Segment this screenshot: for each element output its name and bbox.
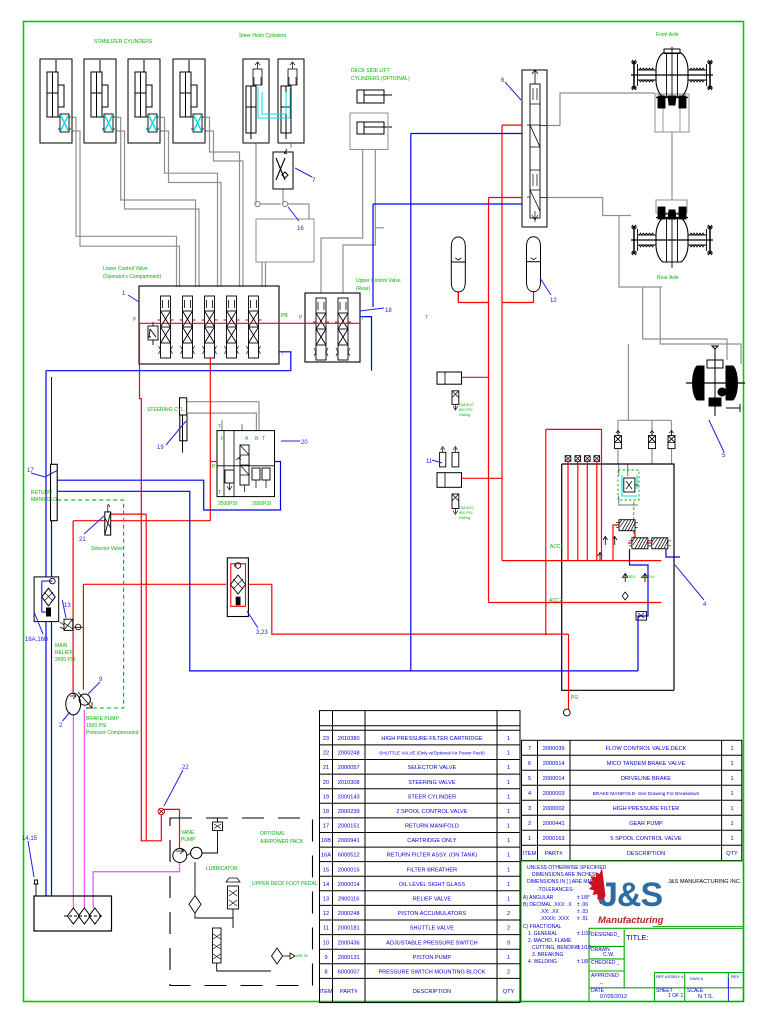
svg-text:Manufacturing: Manufacturing [598, 915, 664, 926]
svg-text:17: 17 [323, 824, 329, 830]
svg-text:6000512: 6000512 [338, 853, 360, 859]
svg-text:T: T [262, 436, 265, 442]
svg-text:2000441: 2000441 [543, 821, 565, 827]
svg-text:3. BREAKING: 3. BREAKING [532, 952, 564, 958]
svg-text:HIGH PRESSURE FILTER CARTRIDGE: HIGH PRESSURE FILTER CARTRIDGE [381, 736, 482, 742]
svg-text:ADJUSTABLE PRESSURE SWITCH: ADJUSTABLE PRESSURE SWITCH [386, 940, 478, 946]
svg-text:2000014: 2000014 [338, 882, 360, 888]
svg-text:GM ACC: GM ACC [459, 403, 474, 407]
svg-text:PART#: PART# [545, 851, 563, 857]
svg-text:PB: PB [281, 313, 288, 319]
svg-text:2: 2 [507, 911, 510, 917]
svg-text:16A: 16A [321, 853, 331, 859]
svg-text:2000163: 2000163 [543, 836, 565, 842]
svg-text:2 SPOOL CONTROL VALVE: 2 SPOOL CONTROL VALVE [396, 809, 467, 815]
svg-text:J&S: J&S [599, 876, 662, 914]
svg-text:T: T [218, 490, 221, 496]
svg-text:2000PSI: 2000PSI [252, 501, 271, 507]
svg-text:23: 23 [323, 736, 329, 742]
svg-text:B: B [255, 436, 259, 442]
svg-text:BLACK: BLACK [641, 574, 654, 579]
svg-text:22: 22 [323, 751, 329, 757]
svg-text:1: 1 [507, 794, 510, 800]
svg-text:16: 16 [297, 226, 304, 232]
svg-text:1: 1 [730, 746, 733, 752]
svg-text:2: 2 [507, 970, 510, 976]
svg-text:2000248: 2000248 [338, 911, 360, 917]
svg-text:1: 1 [730, 806, 733, 812]
svg-text:Rating: Rating [459, 413, 470, 417]
svg-text:AIR/POWER PACK: AIR/POWER PACK [260, 839, 304, 845]
svg-text:HIGH PRESSURE FILTER: HIGH PRESSURE FILTER [613, 806, 680, 812]
svg-text:5 SPOOL CONTROL VALVE: 5 SPOOL CONTROL VALVE [610, 836, 681, 842]
svg-text:1: 1 [507, 824, 510, 830]
svg-text:6000007: 6000007 [338, 970, 360, 976]
svg-text:UNLESS OTHERWISE SPECIFIED: UNLESS OTHERWISE SPECIFIED [527, 865, 607, 871]
svg-text:1 OF 1: 1 OF 1 [668, 993, 684, 999]
svg-text:1: 1 [507, 955, 510, 961]
svg-text:ITEM: ITEM [319, 989, 333, 995]
svg-text:CYLINDERS (OPTIONAL): CYLINDERS (OPTIONAL) [351, 76, 410, 82]
svg-text:UPPER DECK FOOT PEDAL: UPPER DECK FOOT PEDAL [252, 881, 318, 887]
svg-text:.XXXX: .XXX: .XXXX: .XXX [540, 916, 570, 922]
svg-text:11: 11 [323, 926, 329, 932]
svg-text:2000057: 2000057 [338, 765, 360, 771]
svg-text:8: 8 [324, 970, 327, 976]
svg-text:1: 1 [730, 821, 733, 827]
svg-text:RED: RED [627, 574, 636, 579]
svg-text:Upper Control Valve: Upper Control Valve [356, 278, 401, 284]
svg-text:Front Axle: Front Axle [656, 32, 679, 38]
svg-text:BRAKE PUMP: BRAKE PUMP [86, 716, 119, 722]
svg-text:11: 11 [426, 459, 433, 465]
svg-text:1: 1 [730, 836, 733, 842]
svg-text:PISTON ACCUMULATORS: PISTON ACCUMULATORS [398, 911, 467, 917]
svg-text:DIMENSIONS ARE INCHES: DIMENSIONS ARE INCHES [532, 872, 596, 878]
svg-text:1: 1 [122, 291, 126, 297]
svg-text:18: 18 [323, 809, 329, 815]
svg-text:(Operator's Compartment): (Operator's Compartment) [103, 274, 162, 280]
svg-text:1: 1 [507, 867, 510, 873]
svg-text:A: A [245, 436, 249, 442]
svg-text:2000002: 2000002 [543, 806, 565, 812]
svg-text:.XX: .XX: .XX: .XX [540, 909, 560, 915]
svg-text:AIR IN: AIR IN [296, 953, 308, 958]
svg-text:N.T.S.: N.T.S. [698, 994, 714, 1000]
svg-text:CARTRIDGE ONLY: CARTRIDGE ONLY [407, 838, 456, 844]
svg-text:16B: 16B [321, 838, 331, 844]
svg-text:MANIFOLD: MANIFOLD [31, 497, 57, 503]
svg-text:2000151: 2000151 [338, 824, 360, 830]
svg-text:2500PSI: 2500PSI [218, 501, 237, 507]
svg-text:Rear Axle: Rear Axle [657, 275, 679, 281]
svg-text:2000039: 2000039 [543, 746, 565, 752]
svg-text:TITLE:: TITLE: [626, 933, 649, 942]
svg-text:LUBRICATOR: LUBRICATOR [206, 866, 238, 872]
svg-text:C) FRACTIONAL: C) FRACTIONAL [523, 924, 562, 930]
svg-text:B) DECIMAL .XXX: .X: B) DECIMAL .XXX: .X [523, 902, 572, 908]
svg-text:2000003: 2000003 [543, 791, 565, 797]
svg-text:P: P [299, 315, 303, 321]
svg-text:T: T [281, 351, 284, 357]
svg-text:2010380: 2010380 [338, 736, 360, 742]
svg-text:15: 15 [323, 867, 329, 873]
svg-text:2000131: 2000131 [338, 955, 360, 961]
svg-text:5: 5 [528, 776, 531, 782]
svg-text:07/05/2012: 07/05/2012 [600, 994, 627, 1000]
svg-text:DESCRIPTION: DESCRIPTION [627, 851, 665, 857]
svg-text:4: 4 [703, 602, 707, 608]
svg-text:21: 21 [323, 765, 329, 771]
svg-text:QTY: QTY [726, 851, 738, 857]
svg-text:20: 20 [323, 780, 329, 786]
svg-text:ACC2: ACC2 [549, 598, 563, 604]
svg-text:2900116: 2900116 [338, 897, 359, 903]
svg-text:BRAKE MANIFOLD- See Drawing Fo: BRAKE MANIFOLD- See Drawing For Breakdow… [593, 791, 700, 797]
svg-text:22: 22 [182, 765, 189, 771]
svg-text:5: 5 [722, 453, 726, 459]
svg-text:9: 9 [99, 677, 103, 683]
svg-text:T: T [425, 315, 428, 321]
svg-text:7: 7 [528, 746, 531, 752]
svg-text:1: 1 [730, 761, 733, 767]
svg-text:4: 4 [528, 791, 531, 797]
svg-text:20: 20 [301, 440, 308, 446]
svg-text:14,15: 14,15 [22, 836, 38, 842]
svg-text:2000514: 2000514 [543, 761, 565, 767]
svg-text:± .06: ± .06 [577, 902, 588, 908]
svg-text:MAIN: MAIN [55, 643, 68, 649]
svg-text:1: 1 [507, 809, 510, 815]
svg-text:9: 9 [507, 940, 510, 946]
svg-text:SHUTTLE VALVE (Only w/Optional: SHUTTLE VALVE (Only w/Optional Air Power… [379, 751, 485, 756]
svg-text:2500 PSI: 2500 PSI [55, 657, 76, 663]
svg-text:± .01: ± .01 [577, 916, 588, 922]
svg-text:OIL LEVEL SIGHT GLASS: OIL LEVEL SIGHT GLASS [399, 882, 466, 888]
svg-text:PG: PG [571, 695, 578, 701]
svg-text:STABILIZER CYLINDERS: STABILIZER CYLINDERS [94, 39, 153, 45]
svg-text:RETURN FILTER ASSY. (ON TANK): RETURN FILTER ASSY. (ON TANK) [387, 853, 477, 859]
svg-text:-TOLERANCES-: -TOLERANCES- [537, 887, 574, 893]
svg-text:OPTIONAL: OPTIONAL [260, 831, 286, 837]
svg-text:STEERING CYL.: STEERING CYL. [147, 407, 185, 413]
svg-text:± 1/8: ± 1/8 [577, 959, 588, 965]
svg-text:STEERING VALVE: STEERING VALVE [408, 780, 456, 786]
svg-text:C.W.: C.W. [603, 952, 614, 958]
svg-text:3: 3 [528, 806, 531, 812]
svg-text:RETURN: RETURN [31, 490, 52, 496]
svg-text:GEAR PUMP: GEAR PUMP [629, 821, 663, 827]
svg-text:PRESSURE SWITCH MOUNTING BLOCK: PRESSURE SWITCH MOUNTING BLOCK [378, 970, 485, 976]
svg-text:800 PSI: 800 PSI [459, 511, 473, 515]
svg-text:800 PSI: 800 PSI [459, 408, 473, 412]
svg-text:DESCRIPTION: DESCRIPTION [413, 989, 451, 995]
svg-text:2010308: 2010308 [338, 780, 360, 786]
svg-text:1: 1 [507, 897, 510, 903]
svg-text:REF ASSBLY #: REF ASSBLY # [656, 974, 684, 979]
svg-text:1: 1 [507, 736, 510, 742]
svg-text:GM ACC: GM ACC [459, 506, 474, 510]
svg-text:2000143: 2000143 [338, 794, 360, 800]
svg-text:2000436: 2000436 [338, 940, 360, 946]
svg-text:14: 14 [323, 882, 329, 888]
svg-text:CUTTING, BENDING: CUTTING, BENDING [532, 945, 580, 951]
svg-text:± 1/16: ± 1/16 [577, 945, 591, 951]
svg-text:2000941: 2000941 [338, 838, 360, 844]
svg-text:P: P [133, 317, 137, 323]
svg-text:2000248: 2000248 [338, 751, 360, 757]
svg-text:1500 PSI: 1500 PSI [86, 723, 107, 729]
svg-text:4. WELDING: 4. WELDING [528, 959, 557, 965]
svg-text:PISTON PUMP: PISTON PUMP [413, 955, 452, 961]
svg-text:19: 19 [157, 445, 164, 451]
svg-text:1: 1 [507, 780, 510, 786]
svg-text:13: 13 [64, 603, 71, 609]
svg-text:RELIEF: RELIEF [55, 650, 73, 656]
svg-text:DRIVELINE BRAKE: DRIVELINE BRAKE [621, 776, 671, 782]
svg-text:PART#: PART# [340, 989, 358, 995]
svg-text:J&S MANUFACTURING INC.: J&S MANUFACTURING INC. [668, 879, 742, 885]
svg-text:6: 6 [501, 78, 505, 84]
svg-text:2. MACHD, FLAME: 2. MACHD, FLAME [528, 938, 572, 944]
svg-text:PUMP: PUMP [181, 837, 196, 843]
svg-text:RELIEF VALVE: RELIEF VALVE [413, 897, 452, 903]
svg-text:18: 18 [385, 308, 392, 314]
svg-text:DESIGNED_: DESIGNED_ [591, 932, 620, 938]
svg-text:A) ANGULAR: A) ANGULAR [523, 895, 554, 901]
svg-text:DECK SIDE LIFT: DECK SIDE LIFT [351, 68, 390, 74]
svg-text:DIMENSIONS IN [ ] ARE MM: DIMENSIONS IN [ ] ARE MM [527, 879, 592, 885]
svg-text:FILTER BREATHER: FILTER BREATHER [407, 867, 457, 873]
svg-text:2000239: 2000239 [338, 809, 360, 815]
svg-text:10: 10 [323, 940, 329, 946]
svg-text:7: 7 [312, 178, 316, 184]
svg-text:SELECTOR VALVE: SELECTOR VALVE [407, 765, 456, 771]
svg-text:Lower Control Valve: Lower Control Valve [103, 266, 148, 272]
svg-text:Rating: Rating [459, 516, 470, 520]
svg-text:1: 1 [528, 836, 531, 842]
svg-text:16A,16B: 16A,16B [25, 637, 48, 643]
svg-text:12: 12 [323, 911, 329, 917]
svg-text:1: 1 [507, 853, 510, 859]
svg-text:19: 19 [323, 794, 329, 800]
svg-text:VANE: VANE [181, 830, 195, 836]
svg-text:± 1/8°: ± 1/8° [577, 895, 590, 901]
svg-text:_: _ [599, 979, 603, 985]
svg-text:Pressure Compensated: Pressure Compensated [86, 730, 139, 736]
svg-text:1: 1 [507, 765, 510, 771]
svg-text:1: 1 [507, 751, 510, 757]
svg-text:1. GENERAL: 1. GENERAL [528, 931, 558, 937]
svg-text:1: 1 [730, 791, 733, 797]
svg-text:2: 2 [59, 723, 63, 729]
svg-text:CHECKED _: CHECKED _ [591, 960, 620, 966]
svg-text:3,23: 3,23 [256, 630, 268, 636]
svg-text:FLOW CONTROL VALVE,DECK: FLOW CONTROL VALVE,DECK [606, 746, 687, 752]
svg-text:2: 2 [528, 821, 531, 827]
svg-text:ACC1: ACC1 [550, 544, 564, 550]
svg-text:2000015: 2000015 [338, 867, 360, 873]
svg-text:RETURN MANIFOLD: RETURN MANIFOLD [405, 824, 459, 830]
svg-text:Selector Valve: Selector Valve [91, 546, 123, 552]
svg-text:12: 12 [550, 298, 557, 304]
svg-text:6: 6 [528, 761, 531, 767]
svg-text:2000181: 2000181 [338, 926, 360, 932]
svg-text:21: 21 [79, 537, 86, 543]
svg-text:MICO TANDEM BRAKE VALVE: MICO TANDEM BRAKE VALVE [607, 761, 686, 767]
svg-text:T: T [218, 424, 221, 430]
svg-text:STEER CYLINDER: STEER CYLINDER [408, 794, 457, 800]
svg-text:ITEM: ITEM [523, 851, 537, 857]
svg-text:1: 1 [507, 882, 510, 888]
svg-text:Steer Helm Cylinders: Steer Helm Cylinders [239, 33, 287, 39]
svg-text:13: 13 [323, 897, 329, 903]
svg-text:APPROVED: APPROVED [591, 973, 619, 979]
svg-text:SHUTTLE VALVE: SHUTTLE VALVE [410, 926, 455, 932]
svg-text:17: 17 [27, 468, 34, 474]
svg-text:± 1/32: ± 1/32 [577, 931, 591, 937]
svg-text:QTY: QTY [503, 989, 515, 995]
svg-text:± .03: ± .03 [577, 909, 588, 915]
svg-text:DWG #: DWG # [690, 976, 704, 981]
svg-text:T: T [361, 316, 364, 322]
svg-text:2000014: 2000014 [543, 776, 565, 782]
svg-text:9: 9 [324, 955, 327, 961]
svg-text:(Rear): (Rear) [356, 286, 371, 292]
svg-text:1: 1 [730, 776, 733, 782]
svg-text:2: 2 [507, 926, 510, 932]
svg-text:REV: REV [731, 974, 740, 979]
svg-text:1: 1 [507, 838, 510, 844]
svg-text:P: P [212, 464, 216, 470]
